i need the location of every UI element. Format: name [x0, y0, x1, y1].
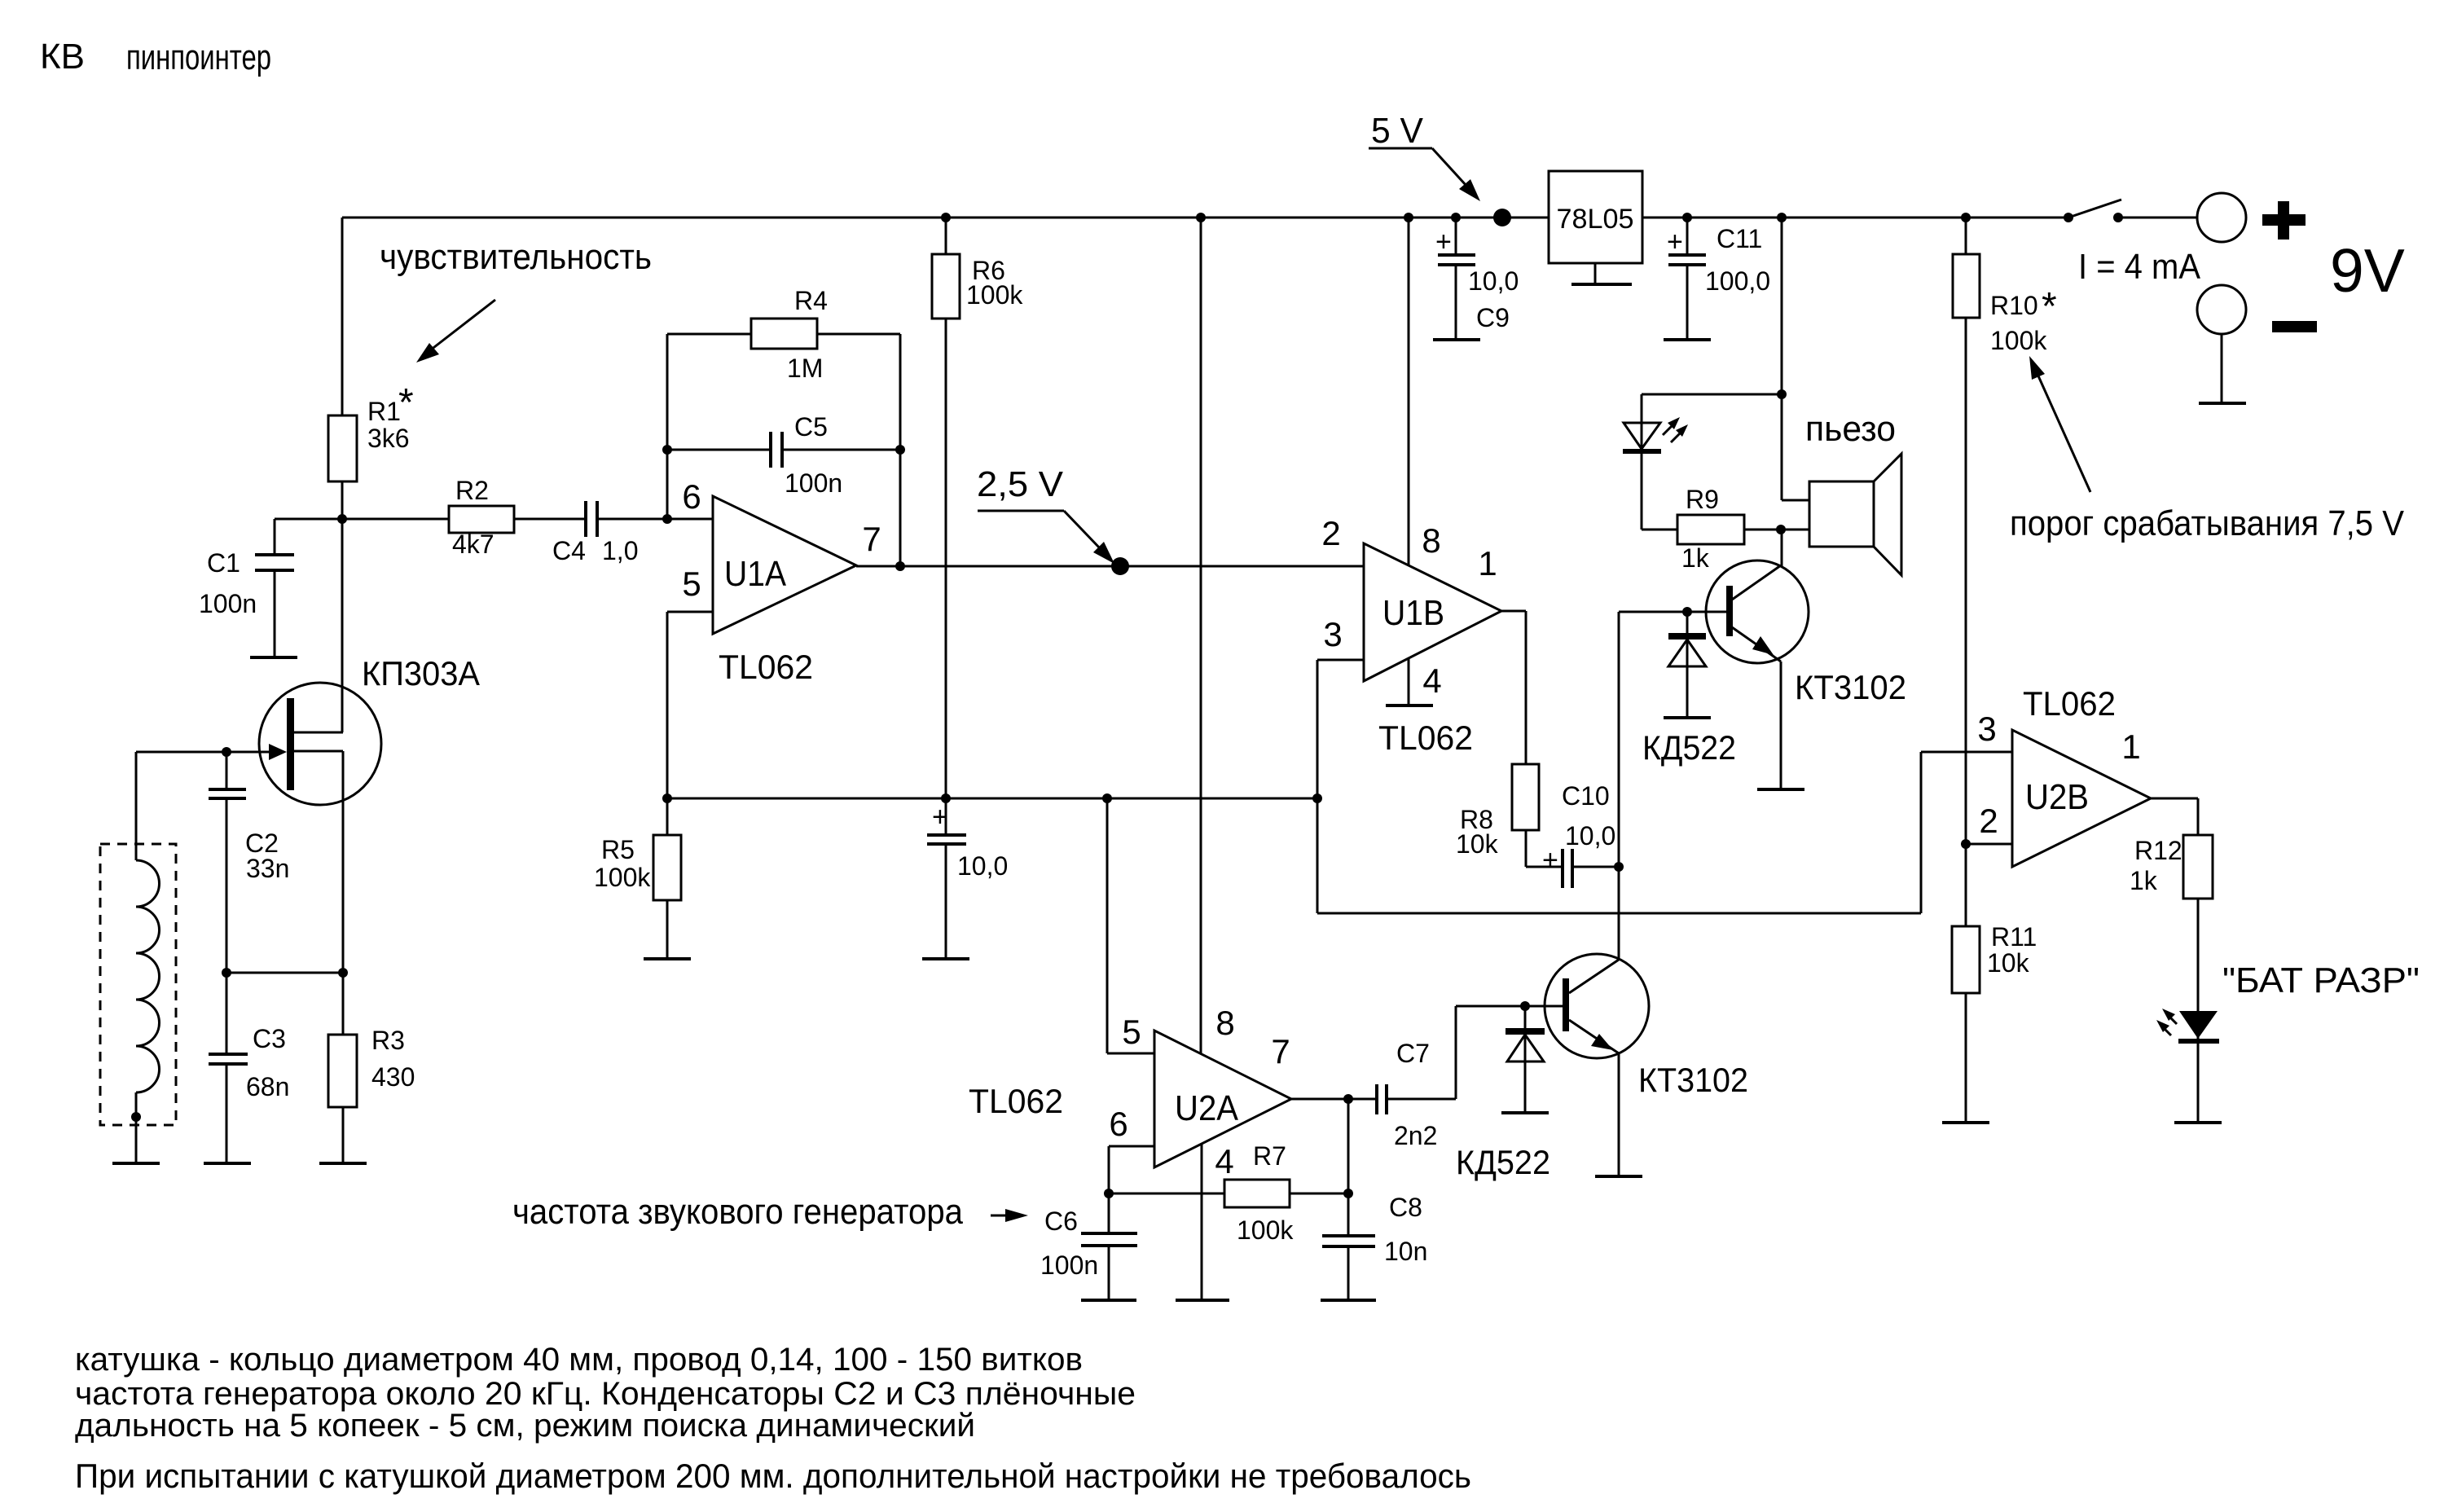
battery plus sign: [2262, 214, 2306, 226]
wire C1 leads: [275, 519, 342, 657]
svg-text:дальность на 5 копеек - 5 см,: дальность на 5 копеек - 5 см, режим поис…: [75, 1408, 975, 1444]
svg-text:4k7: 4k7: [452, 530, 495, 559]
regulator U3 78L05: [1549, 171, 1642, 263]
svg-text:2: 2: [1979, 802, 1998, 840]
capacitor C5 right plate: [780, 432, 784, 468]
wire 2.5V reference net: [667, 798, 1317, 800]
node rail R6: [941, 213, 951, 222]
svg-text:+: +: [1542, 845, 1558, 876]
wire R8 to C10 to node: [1526, 830, 1619, 867]
svg-text:TL062: TL062: [719, 648, 813, 686]
ground lower KD522: [1501, 1111, 1549, 1114]
svg-text:1M: 1M: [787, 354, 823, 383]
svg-text:7: 7: [862, 520, 881, 558]
capacitor C7 left plate: [1375, 1084, 1378, 1114]
svg-text:"БАТ РАЗР": "БАТ РАЗР": [2222, 960, 2420, 1000]
svg-text:8: 8: [1422, 521, 1440, 560]
node C5 left: [662, 445, 672, 455]
svg-text:U1B: U1B: [1382, 593, 1444, 633]
capacitor C10 left plate: [1561, 849, 1564, 888]
resistor R9: [1677, 515, 1744, 544]
svg-text:U1A: U1A: [724, 554, 787, 594]
svg-text:10k: 10k: [1987, 948, 2030, 978]
svg-text:3: 3: [1323, 615, 1342, 653]
svg-text:+: +: [1667, 226, 1683, 257]
capacitor C9 top plate: [1438, 253, 1475, 257]
node R7/C8: [1343, 1189, 1353, 1198]
LED HL1 light arrows: [1663, 426, 1672, 435]
capacitor C1 top plate: [255, 553, 294, 556]
diode VD1 KD522 upper: [1686, 612, 1689, 718]
capacitor C1 bottom plate: [255, 569, 294, 572]
wire C9 leads: [1455, 218, 1457, 339]
switch contact left: [2064, 213, 2073, 222]
capacitor C9 bottom plate: [1438, 263, 1475, 266]
node R9/piezo/collector: [1776, 525, 1786, 534]
node rail U1B pin8: [1404, 213, 1413, 222]
node C5 right: [895, 445, 905, 455]
wire U1A feedback loop: [667, 334, 900, 566]
svg-text:C8: C8: [1389, 1193, 1422, 1222]
wire C5 leads: [667, 449, 900, 451]
capacitor C2 bottom plate: [209, 797, 246, 800]
svg-text:*: *: [398, 381, 414, 424]
wire U2A pin6: [1109, 1146, 1154, 1193]
node C2/C3: [222, 968, 231, 978]
wire U1B output to R8: [1501, 611, 1526, 764]
wire JFET source to R3: [293, 751, 343, 1035]
wire U1A pin5: [667, 612, 713, 798]
wire U2A pin5: [1107, 798, 1154, 1053]
resistor R12: [2183, 835, 2213, 899]
svg-text:7: 7: [1271, 1032, 1290, 1070]
resistor R1: [328, 415, 357, 481]
wire battery minus to ground: [2221, 334, 2223, 402]
ground cap 10,0: [922, 957, 969, 960]
svg-text:TL062: TL062: [2023, 684, 2116, 723]
node LED branch: [1777, 389, 1787, 399]
svg-text:КД522: КД522: [1456, 1143, 1550, 1181]
wire ref net to U2B pin3: [1317, 752, 2012, 913]
wire R1 leads: [341, 218, 344, 519]
node feedback/output: [895, 561, 905, 571]
svg-text:C9: C9: [1476, 303, 1510, 332]
node base/diode lower: [1520, 1001, 1530, 1011]
wire R9 to piezo node: [1744, 529, 1809, 531]
node base/diode upper: [1682, 607, 1692, 617]
wire U1A output to U1B pin2: [856, 565, 1364, 568]
resistor R11: [1952, 926, 1980, 993]
node ref/pin5/R5: [662, 793, 672, 803]
wire 5V to U1B pin8: [1408, 218, 1410, 570]
ground R5: [644, 957, 691, 960]
capacitor C11 top plate: [1668, 253, 1706, 257]
resistor R3: [328, 1035, 357, 1107]
svg-text:C5: C5: [794, 412, 828, 442]
ground 78L05: [1571, 283, 1632, 286]
capacitor C7 right plate: [1385, 1084, 1388, 1114]
wire R5 leads: [666, 798, 669, 959]
svg-text:КТ3102: КТ3102: [1638, 1061, 1748, 1099]
svg-text:При испытании с катушкой диаме: При испытании с катушкой диаметром 200 м…: [75, 1457, 1471, 1495]
ground C9: [1433, 338, 1480, 341]
wire C2 leads: [226, 752, 228, 973]
resistor R6: [932, 254, 960, 319]
piezo speaker: [1809, 481, 1874, 547]
node 5V big dot: [1493, 209, 1511, 226]
svg-text:10n: 10n: [1384, 1237, 1427, 1266]
wire lower emitter to ground: [1618, 1053, 1620, 1176]
svg-text:R4: R4: [794, 286, 828, 315]
capacitor C2 top plate: [209, 788, 246, 791]
ground battery: [2199, 402, 2246, 405]
svg-text:4: 4: [1215, 1142, 1233, 1180]
node source/R3: [338, 968, 348, 978]
ground C11: [1664, 338, 1711, 341]
ground lower KT3102: [1595, 1175, 1642, 1178]
capacitor C4 right plate: [596, 501, 599, 537]
wire to lower KT3102 collector: [1618, 867, 1620, 959]
svg-text:1k: 1k: [1681, 543, 1710, 573]
svg-text:R9: R9: [1686, 485, 1719, 514]
ground C1: [250, 656, 297, 659]
wire LED to ground: [2197, 1043, 2200, 1123]
svg-text:100k: 100k: [1237, 1215, 1294, 1245]
svg-text:КП303А: КП303А: [362, 654, 480, 692]
wire R7 leads: [1109, 1193, 1348, 1195]
svg-text:C3: C3: [253, 1024, 286, 1053]
svg-text:пьезо: пьезо: [1805, 409, 1896, 449]
node rail piezo branch: [1777, 213, 1787, 222]
node C6/R7: [1104, 1189, 1114, 1198]
wire R2 C4 to U1A pin6: [342, 518, 713, 521]
wire 5V to U2A pin8: [1200, 218, 1202, 1054]
ground upper KD522: [1664, 716, 1711, 719]
wire U2B pin2: [1966, 843, 2012, 846]
ground R11: [1942, 1121, 1989, 1124]
svg-text:10k: 10k: [1456, 829, 1499, 859]
wire to upper KT3102 base: [1619, 612, 1726, 867]
wire C6 leads: [1108, 1193, 1110, 1300]
svg-text:5: 5: [1122, 1013, 1141, 1051]
svg-text:TL062: TL062: [969, 1082, 1063, 1120]
wire U2A pin4 ground stem: [1201, 1144, 1203, 1299]
svg-text:100k: 100k: [1990, 326, 2047, 355]
ground C3: [204, 1162, 251, 1165]
capacitor C3 bottom plate: [209, 1062, 248, 1066]
svg-text:3k6: 3k6: [367, 424, 410, 453]
node rail C9: [1451, 213, 1461, 222]
svg-text:I = 4 mA: I = 4 mA: [2078, 247, 2201, 287]
wire U1B pin3 and ref vertical: [1317, 660, 1364, 913]
svg-text:чувствительность: чувствительность: [380, 237, 652, 277]
svg-text:100,0: 100,0: [1705, 266, 1770, 296]
svg-text:R12: R12: [2134, 836, 2182, 865]
wire U2A output via C7: [1291, 1098, 1456, 1101]
svg-text:6: 6: [1109, 1105, 1127, 1143]
svg-text:C7: C7: [1396, 1039, 1430, 1068]
wire rail to piezo top: [1781, 218, 1783, 500]
resistor R2: [449, 506, 514, 533]
svg-text:9V: 9V: [2330, 236, 2405, 305]
ground C8: [1321, 1299, 1376, 1302]
svg-text:C4: C4: [552, 536, 586, 565]
wire R6 leads: [945, 218, 947, 798]
node ref/U2A pin5: [1102, 793, 1112, 803]
svg-text:100n: 100n: [1040, 1250, 1098, 1280]
svg-text:100n: 100n: [785, 468, 842, 498]
svg-text:TL062: TL062: [1378, 719, 1473, 757]
wire R10 leads / pin2 column: [1965, 218, 1967, 926]
svg-text:R5: R5: [601, 835, 635, 864]
svg-text:C11: C11: [1717, 224, 1762, 253]
svg-text:8: 8: [1215, 1004, 1234, 1042]
wire top rail right (9V): [1642, 217, 2068, 219]
battery GB1 minus terminal: [2197, 285, 2246, 334]
svg-text:78L05: 78L05: [1557, 204, 1634, 235]
svg-text:1k: 1k: [2130, 866, 2158, 895]
diode VD2 KD522 lower: [1524, 1006, 1527, 1113]
wire R3 to ground: [342, 1107, 345, 1163]
wire cap 10,0 leads: [945, 798, 947, 959]
op-amp U1B: [1364, 543, 1501, 681]
wire C2-R3 junction: [226, 972, 343, 974]
wire R12 to LED: [2197, 899, 2200, 1040]
wire C3 leads: [226, 973, 228, 1163]
wire rail to battery plus: [2118, 217, 2197, 219]
svg-text:+: +: [1435, 226, 1452, 257]
svg-text:2: 2: [1321, 514, 1340, 552]
node coil bottom: [131, 1112, 141, 1122]
capacitor C10 right plate: [1571, 849, 1574, 888]
wire C11 leads: [1686, 218, 1689, 339]
capacitor C8 top plate: [1322, 1234, 1375, 1237]
node 2.5V big dot: [1111, 557, 1129, 575]
svg-text:C6: C6: [1044, 1207, 1078, 1236]
svg-text:2n2: 2n2: [1394, 1121, 1437, 1150]
node output/C8 column: [1343, 1094, 1353, 1104]
ground LED: [2174, 1121, 2222, 1124]
transistor VT3 KT3102 lower: [1545, 954, 1649, 1058]
wire C7 to lower base: [1456, 1006, 1563, 1099]
svg-text:33n: 33n: [246, 854, 289, 883]
battery minus sign: [2272, 321, 2317, 332]
LED HL2 BAT RAZR: [2179, 1011, 2218, 1039]
capacitor C8 bottom plate: [1322, 1245, 1375, 1248]
svg-text:3: 3: [1977, 710, 1996, 748]
svg-text:частота звукового генератора: частота звукового генератора: [512, 1192, 963, 1232]
LED HL1 indicator: [1624, 423, 1660, 449]
svg-text:10,0: 10,0: [1565, 821, 1615, 850]
svg-text:частота генератора около 20 кГ: частота генератора около 20 кГц. Конденс…: [75, 1376, 1136, 1412]
LED HL2 light arrows: [2169, 1016, 2177, 1024]
capacitor C5 left plate: [769, 432, 772, 468]
svg-text:430: 430: [371, 1062, 415, 1092]
svg-text:R2: R2: [455, 476, 489, 505]
resistor R4: [751, 319, 817, 349]
svg-text:пинпоинтер: пинпоинтер: [126, 37, 271, 77]
capacitor C11 bottom plate: [1668, 263, 1706, 266]
wire JFET gate: [136, 751, 270, 754]
svg-text:1: 1: [1478, 544, 1497, 582]
svg-text:6: 6: [682, 477, 701, 516]
svg-text:100k: 100k: [966, 280, 1023, 310]
svg-text:10,0: 10,0: [1468, 266, 1519, 296]
svg-text:R11: R11: [1991, 922, 2037, 952]
wire top rail left (5V): [342, 217, 1549, 219]
svg-text:100k: 100k: [594, 863, 651, 892]
svg-text:КТ3102: КТ3102: [1795, 668, 1906, 706]
ground U1B pin4: [1386, 704, 1433, 707]
node rail C11: [1682, 213, 1692, 222]
svg-text:C1: C1: [207, 548, 240, 578]
svg-text:4: 4: [1422, 661, 1441, 700]
svg-text:100n: 100n: [199, 589, 257, 618]
svg-text:R1: R1: [367, 397, 401, 426]
svg-text:1: 1: [2121, 727, 2140, 766]
capacitor C3 top plate: [209, 1053, 248, 1056]
node R10/R11/pin2: [1961, 839, 1971, 849]
capacitor 10,0 bottom plate: [927, 842, 966, 846]
node gate/C2: [222, 747, 231, 757]
svg-text:68n: 68n: [246, 1072, 289, 1101]
svg-text:+: +: [932, 802, 948, 833]
svg-text:5: 5: [682, 565, 701, 603]
svg-text:*: *: [2042, 285, 2057, 328]
resistor R10: [1953, 254, 1980, 318]
wire R11 to ground: [1965, 993, 1967, 1123]
node rail R10: [1961, 213, 1971, 222]
wire piezo top terminal: [1782, 499, 1809, 502]
svg-text:R10: R10: [1990, 291, 2038, 320]
svg-text:10,0: 10,0: [957, 851, 1008, 881]
transistor VT2 KT3102 upper: [1706, 560, 1809, 663]
wire U1B pin4 ground stem: [1408, 658, 1410, 705]
wire C8 leads: [1347, 1193, 1350, 1300]
ground U2A pin4: [1176, 1299, 1229, 1302]
svg-text:U2A: U2A: [1175, 1088, 1239, 1128]
wire 78L05 ground stem: [1594, 263, 1597, 284]
ground R3: [319, 1162, 367, 1165]
capacitor C6 bottom plate: [1081, 1244, 1137, 1247]
op-amp U2B: [2012, 730, 2151, 867]
ground upper KT3102: [1757, 788, 1804, 791]
resistor R8: [1512, 764, 1539, 830]
resistor R5: [653, 835, 681, 900]
node R1/R2/C1/drain: [337, 514, 347, 524]
capacitor C6 top plate: [1081, 1232, 1137, 1235]
transistor VT1 KP303A JFET: [259, 683, 381, 805]
capacitor C4 left plate: [584, 501, 587, 537]
svg-text:1,0: 1,0: [602, 536, 638, 565]
svg-text:КД522: КД522: [1642, 728, 1736, 767]
node C10 output: [1614, 862, 1624, 872]
svg-text:U2B: U2B: [2025, 777, 2089, 817]
switch contact right: [2113, 213, 2123, 222]
coil L1 search coil: [100, 844, 176, 1125]
node ref/R6/cap: [941, 793, 951, 803]
svg-text:C10: C10: [1562, 781, 1610, 811]
wire LED anode: [1642, 394, 1782, 451]
svg-text:катушка - кольцо диаметром 40: катушка - кольцо диаметром 40 мм, провод…: [75, 1342, 1083, 1378]
op-amp U2A: [1154, 1031, 1291, 1167]
svg-text:КВ: КВ: [40, 37, 85, 77]
svg-text:порог срабатывания 7,5 V: порог срабатывания 7,5 V: [2010, 503, 2405, 543]
wire output to R7/C8: [1347, 1099, 1350, 1193]
ground coil: [112, 1162, 160, 1165]
capacitor 10,0 top plate: [927, 833, 966, 837]
wire LED cathode to R9: [1642, 451, 1677, 530]
wire JFET drain: [293, 519, 343, 732]
op-amp U1A: [713, 496, 856, 634]
svg-text:2,5 V: 2,5 V: [977, 464, 1064, 504]
wire upper emitter to ground: [1780, 661, 1782, 789]
ground C6: [1081, 1299, 1136, 1302]
svg-text:R3: R3: [371, 1026, 405, 1055]
wire U2B output to R12: [2151, 798, 2198, 835]
svg-text:R7: R7: [1253, 1141, 1286, 1171]
node rail U2A pin8: [1196, 213, 1206, 222]
svg-text:5 V: 5 V: [1371, 111, 1424, 151]
resistor R7: [1224, 1180, 1290, 1207]
node U1A pin6: [662, 514, 672, 524]
battery GB1 9V plus terminal: [2197, 193, 2246, 242]
node ref/U1B pin3: [1312, 793, 1322, 803]
wire upper collector: [1781, 530, 1783, 567]
